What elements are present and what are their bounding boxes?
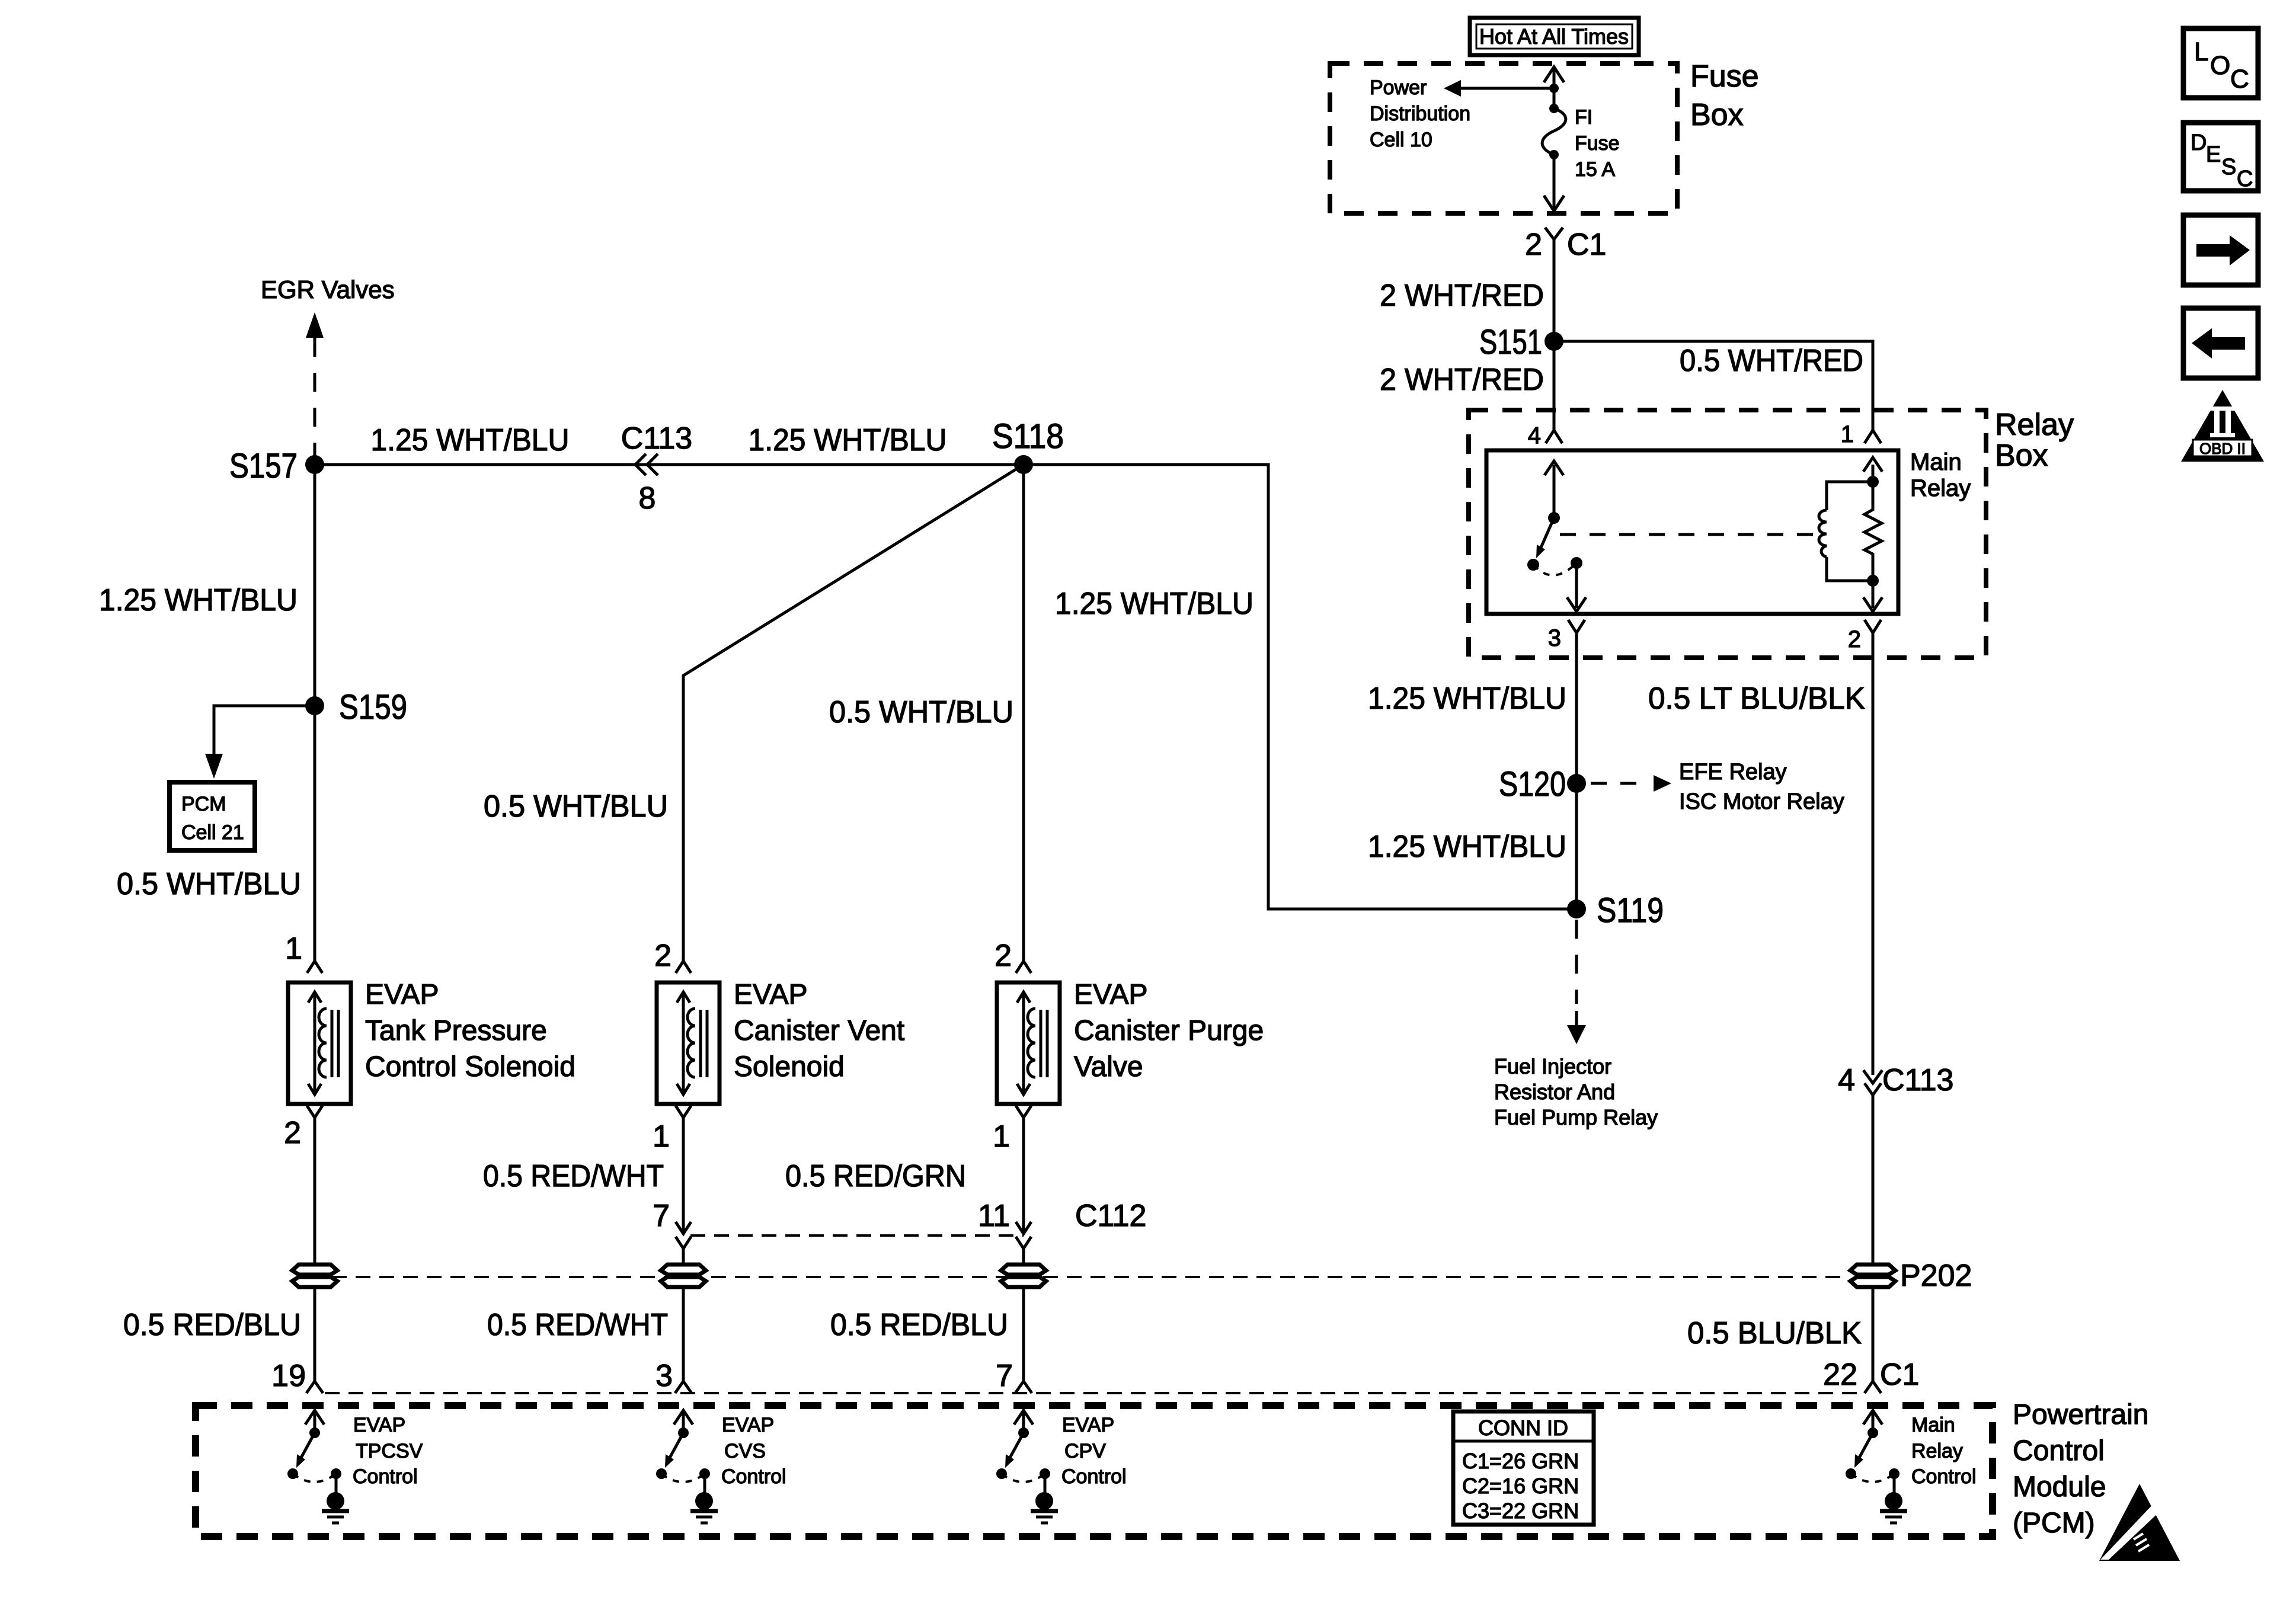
svg-text:1: 1 xyxy=(1841,421,1854,447)
svg-text:2: 2 xyxy=(284,1116,301,1150)
diagonal wire S118 to canister vent solenoid xyxy=(683,465,1024,961)
svg-text:C: C xyxy=(2237,167,2253,191)
label FI Fuse 15 A xyxy=(1575,106,1620,181)
relay resistor xyxy=(1865,482,1882,587)
connector C1 pin 2 (fuse box output) xyxy=(1545,228,1563,341)
svg-text:1.25 WHT/BLU: 1.25 WHT/BLU xyxy=(371,423,570,457)
wire fuse-box feed arrow up xyxy=(1544,67,1564,88)
svg-text:S: S xyxy=(2221,155,2236,180)
PCM driver switch EVAP CPV Control xyxy=(996,1410,1050,1496)
wire S151 down to relay pin 4 xyxy=(1553,341,1556,430)
ground (CVS driver) xyxy=(690,1492,718,1523)
wire grommet to PCM pin 3 xyxy=(682,1287,685,1381)
connector PCM pin 19 xyxy=(271,1359,323,1393)
wire fuse output arrow down xyxy=(1544,155,1564,211)
svg-text:Hot At All Times: Hot At All Times xyxy=(1479,24,1629,49)
grommet (purge valve wire) xyxy=(1001,1265,1046,1287)
svg-text:S159: S159 xyxy=(339,688,407,726)
svg-text:3: 3 xyxy=(1548,625,1561,651)
solenoid EVAP Canister Purge Valve xyxy=(997,982,1060,1104)
label EVAP Canister Vent Solenoid xyxy=(734,979,904,1083)
svg-text:C3=22 GRN: C3=22 GRN xyxy=(1462,1499,1579,1523)
dashed wire to EGR valves (arrow up) xyxy=(306,312,324,465)
svg-text:E: E xyxy=(2206,142,2221,167)
connector pin 1 below canister vent solenoid xyxy=(653,1106,691,1233)
solenoid EVAP Canister Vent Solenoid xyxy=(657,982,720,1104)
svg-text:C1: C1 xyxy=(1567,228,1606,262)
label EVAP Canister Purge Valve xyxy=(1074,979,1264,1083)
ESD warning triangle xyxy=(2099,1484,2180,1561)
svg-text:1.25 WHT/BLU: 1.25 WHT/BLU xyxy=(1368,830,1566,864)
svg-text:Control: Control xyxy=(1911,1465,1977,1488)
label Fuse Box xyxy=(1690,59,1759,132)
svg-text:Fuel Injector: Fuel Injector xyxy=(1494,1054,1611,1078)
svg-text:0.5 WHT/RED: 0.5 WHT/RED xyxy=(1680,344,1863,378)
dashed arrow S120 to EFE relay xyxy=(1591,775,1671,792)
svg-text:(PCM): (PCM) xyxy=(2013,1507,2095,1539)
wire left column S157 down xyxy=(314,465,316,961)
grommet (canister vent wire) xyxy=(661,1265,706,1287)
label EVAP CVS Control xyxy=(721,1414,786,1488)
svg-text:0.5 RED/BLU: 0.5 RED/BLU xyxy=(830,1308,1008,1342)
connector pin 2 below tank pressure solenoid xyxy=(284,1106,322,1266)
connector PCM pin 7 xyxy=(996,1359,1032,1393)
svg-text:1: 1 xyxy=(993,1119,1010,1154)
svg-text:Control: Control xyxy=(2013,1435,2105,1467)
svg-text:4: 4 xyxy=(1528,422,1541,449)
relay switch output to pin 3 xyxy=(1567,563,1586,612)
connector relay pin 1 xyxy=(1841,421,1881,447)
splice S159 xyxy=(305,688,407,726)
connector C112 pin 7 xyxy=(653,1199,691,1266)
splice S118 xyxy=(992,417,1064,474)
ground (TPCSV driver) xyxy=(322,1492,349,1523)
svg-text:Power: Power xyxy=(1370,76,1427,99)
svg-text:0.5 RED/BLU: 0.5 RED/BLU xyxy=(123,1308,301,1342)
svg-text:C112: C112 xyxy=(1075,1199,1146,1233)
svg-text:2: 2 xyxy=(654,939,671,973)
svg-text:PCM: PCM xyxy=(181,793,226,815)
svg-text:Canister Purge: Canister Purge xyxy=(1074,1015,1264,1046)
connector C113 pin 4 (right wire) xyxy=(1838,1063,1953,1265)
svg-text:7: 7 xyxy=(653,1199,670,1233)
svg-text:0.5 LT BLU/BLK: 0.5 LT BLU/BLK xyxy=(1648,681,1865,716)
svg-text:EFE Relay: EFE Relay xyxy=(1679,760,1787,785)
svg-text:Control: Control xyxy=(721,1465,786,1488)
svg-text:S119: S119 xyxy=(1597,891,1664,930)
svg-text:2 WHT/RED: 2 WHT/RED xyxy=(1380,363,1544,397)
svg-text:Cell 10: Cell 10 xyxy=(1370,129,1432,151)
svg-text:OBD II: OBD II xyxy=(2199,440,2246,457)
dashed firewall line through grommets xyxy=(332,1276,1849,1278)
svg-text:EVAP: EVAP xyxy=(353,1414,405,1436)
svg-text:2: 2 xyxy=(1525,228,1542,262)
icon box DESC xyxy=(2183,123,2258,191)
connector relay pin 3 xyxy=(1548,620,1585,909)
svg-text:EVAP: EVAP xyxy=(365,979,439,1010)
relay switch contact arm (pin 4 side) xyxy=(1527,461,1582,575)
svg-text:0.5 WHT/BLU: 0.5 WHT/BLU xyxy=(829,695,1013,729)
label Powertrain Control Module (PCM) xyxy=(2013,1399,2148,1539)
svg-text:Relay: Relay xyxy=(1995,408,2074,442)
svg-text:C1: C1 xyxy=(1880,1358,1919,1392)
svg-text:0.5 RED/WHT: 0.5 RED/WHT xyxy=(487,1308,668,1342)
label Relay Box xyxy=(1995,408,2074,473)
icon OBD II triangle xyxy=(2181,390,2264,462)
svg-text:Resistor And: Resistor And xyxy=(1494,1080,1615,1104)
label Fuel Injector Resistor And Fuel Pump Relay xyxy=(1494,1054,1658,1129)
svg-text:Fuel Pump Relay: Fuel Pump Relay xyxy=(1494,1105,1658,1129)
grommet (tank pressure wire) xyxy=(292,1265,337,1287)
svg-text:CONN ID: CONN ID xyxy=(1478,1416,1568,1440)
label EFE Relay / ISC Motor Relay xyxy=(1679,760,1844,814)
svg-text:2: 2 xyxy=(1848,626,1861,652)
label Main Relay Control xyxy=(1911,1414,1977,1488)
svg-text:3: 3 xyxy=(655,1359,673,1393)
svg-text:Control: Control xyxy=(353,1465,418,1488)
connector relay pin 4 xyxy=(1528,422,1562,449)
svg-text:11: 11 xyxy=(978,1199,1010,1233)
svg-text:P202: P202 xyxy=(1900,1259,1972,1293)
PCM driver switch EVAP CVS Control xyxy=(656,1410,710,1496)
connector pin 2 (canister purge valve) xyxy=(994,939,1031,973)
svg-text:O: O xyxy=(2210,51,2230,80)
svg-text:FI: FI xyxy=(1575,106,1593,129)
svg-text:0.5 WHT/BLU: 0.5 WHT/BLU xyxy=(484,789,668,824)
wire grommet to PCM pin 19 xyxy=(314,1287,316,1381)
svg-text:Relay: Relay xyxy=(1910,475,1971,501)
dashed PCM connector face line xyxy=(325,1392,1859,1394)
fuse FI 15A symbol xyxy=(1542,88,1566,159)
svg-text:EVAP: EVAP xyxy=(722,1414,774,1436)
svg-text:1: 1 xyxy=(653,1119,670,1154)
connector relay pin 2 xyxy=(1848,620,1881,1075)
svg-text:CVS: CVS xyxy=(724,1440,766,1462)
svg-text:EVAP: EVAP xyxy=(1074,979,1148,1010)
relay coil output to pin 2 xyxy=(1863,581,1882,612)
main relay body box xyxy=(1486,450,1898,614)
svg-text:1: 1 xyxy=(285,932,302,966)
connector pin 2 (canister vent solenoid) xyxy=(654,939,691,973)
svg-text:7: 7 xyxy=(996,1359,1013,1393)
svg-text:0.5 RED/GRN: 0.5 RED/GRN xyxy=(785,1159,966,1193)
svg-text:Control: Control xyxy=(1061,1465,1127,1488)
connector C112 pin 11 xyxy=(978,1199,1146,1266)
connector C113 pin 8 (top rail) xyxy=(621,421,692,516)
wire P202 to PCM pin 22 xyxy=(1872,1287,1875,1381)
svg-text:C1=26 GRN: C1=26 GRN xyxy=(1462,1449,1579,1473)
connector pin 1 (tank pressure solenoid) xyxy=(285,932,322,973)
splice S151 xyxy=(1479,323,1563,361)
svg-text:1.25 WHT/BLU: 1.25 WHT/BLU xyxy=(1368,681,1566,716)
svg-text:1.25 WHT/BLU: 1.25 WHT/BLU xyxy=(749,423,947,457)
icon box LOC xyxy=(2183,28,2258,98)
wire S118 to S119 (right, down, right) xyxy=(1024,465,1576,909)
svg-text:S118: S118 xyxy=(992,417,1064,456)
svg-text:D: D xyxy=(2191,130,2207,155)
svg-text:C113: C113 xyxy=(621,421,692,456)
svg-text:S157: S157 xyxy=(229,447,298,485)
relay coil xyxy=(1819,457,1882,581)
splice S120 xyxy=(1499,765,1586,804)
connector C1 pin 22 (PCM) xyxy=(1823,1358,1919,1393)
svg-text:1.25 WHT/BLU: 1.25 WHT/BLU xyxy=(1055,587,1253,621)
svg-text:Canister Vent: Canister Vent xyxy=(734,1015,904,1046)
wire to power distribution (left arrow) xyxy=(1444,80,1559,97)
icon box left-arrow xyxy=(2183,308,2258,378)
ground (CPV driver) xyxy=(1031,1492,1058,1523)
svg-text:EVAP: EVAP xyxy=(1062,1414,1114,1436)
svg-text:CPV: CPV xyxy=(1064,1440,1106,1462)
splice S119 xyxy=(1567,891,1664,930)
svg-text:0.5 RED/WHT: 0.5 RED/WHT xyxy=(483,1159,664,1193)
fuse box (dashed) xyxy=(1330,63,1677,213)
relay box (dashed) xyxy=(1469,410,1986,658)
svg-text:2 WHT/RED: 2 WHT/RED xyxy=(1380,279,1544,313)
svg-text:ISC Motor Relay: ISC Motor Relay xyxy=(1679,789,1844,814)
label EVAP Tank Pressure Control Solenoid xyxy=(365,979,575,1083)
grommet P202 xyxy=(1850,1259,1972,1293)
wire grommet to PCM pin 7 xyxy=(1022,1287,1025,1381)
label EVAP TPCSV Control xyxy=(353,1414,423,1488)
PCM box (dashed) xyxy=(196,1406,1993,1537)
svg-text:S120: S120 xyxy=(1499,765,1566,804)
dashed line C112 xyxy=(690,1234,1024,1237)
svg-text:TPCSV: TPCSV xyxy=(356,1440,423,1462)
wire top rail S157 to S118 xyxy=(315,463,1024,466)
wire S151 to relay pin 1 xyxy=(1554,341,1873,430)
svg-text:Relay: Relay xyxy=(1911,1440,1963,1462)
svg-text:Main: Main xyxy=(1911,1414,1955,1436)
label Power Distribution Cell 10 xyxy=(1370,76,1470,151)
svg-text:Solenoid: Solenoid xyxy=(734,1051,845,1083)
svg-text:Box: Box xyxy=(1995,438,2048,473)
connector pin 1 below canister purge valve xyxy=(993,1106,1031,1233)
wire S159 branch to PCM cell 21 xyxy=(205,706,315,779)
relay internal dashed link xyxy=(1560,533,1821,536)
PCM driver switch Main Relay Control xyxy=(1846,1410,1900,1496)
svg-text:4: 4 xyxy=(1838,1063,1855,1097)
svg-text:S151: S151 xyxy=(1479,323,1542,361)
label Main Relay xyxy=(1910,449,1971,501)
svg-text:EGR Valves: EGR Valves xyxy=(261,276,395,303)
svg-text:EVAP: EVAP xyxy=(734,979,808,1010)
svg-text:C113: C113 xyxy=(1882,1063,1953,1097)
svg-text:0.5 BLU/BLK: 0.5 BLU/BLK xyxy=(1687,1316,1862,1350)
svg-text:L: L xyxy=(2194,37,2208,66)
svg-text:Fuse: Fuse xyxy=(1690,59,1759,94)
solenoid EVAP Tank Pressure Control Solenoid xyxy=(288,982,351,1104)
label 2 C1 xyxy=(1525,228,1606,262)
PCM driver switch EVAP TPCSV Control xyxy=(287,1410,341,1496)
splice S157 xyxy=(229,447,324,485)
svg-text:C2=16 GRN: C2=16 GRN xyxy=(1462,1474,1579,1498)
connector PCM pin 3 xyxy=(655,1359,692,1393)
svg-text:Valve: Valve xyxy=(1074,1051,1143,1083)
svg-text:8: 8 xyxy=(639,481,656,516)
wire S118 down to purge valve xyxy=(1022,465,1025,961)
box PCM Cell 21 xyxy=(170,782,255,850)
label EVAP CPV Control xyxy=(1061,1414,1127,1488)
svg-text:Powertrain: Powertrain xyxy=(2013,1399,2148,1430)
svg-text:C: C xyxy=(2230,65,2249,94)
svg-text:1.25 WHT/BLU: 1.25 WHT/BLU xyxy=(99,583,298,617)
svg-text:Tank Pressure: Tank Pressure xyxy=(365,1015,547,1046)
power label box "Hot At All Times" xyxy=(1470,18,1639,55)
svg-text:Main: Main xyxy=(1910,449,1962,475)
svg-text:Fuse: Fuse xyxy=(1575,132,1620,155)
dashed wire below S119 to fuel pump relay xyxy=(1567,920,1586,1044)
ground (Main Relay driver) xyxy=(1880,1492,1907,1523)
svg-text:2: 2 xyxy=(994,939,1012,973)
svg-text:0.5 WHT/BLU: 0.5 WHT/BLU xyxy=(117,867,301,901)
svg-text:Module: Module xyxy=(2013,1471,2106,1503)
svg-text:Cell 21: Cell 21 xyxy=(181,821,244,844)
svg-text:Box: Box xyxy=(1690,98,1744,132)
table CONN ID xyxy=(1453,1411,1594,1525)
svg-text:Control Solenoid: Control Solenoid xyxy=(365,1051,575,1083)
svg-text:15 A: 15 A xyxy=(1575,158,1615,181)
svg-text:22: 22 xyxy=(1823,1358,1857,1392)
svg-text:Distribution: Distribution xyxy=(1370,103,1470,125)
svg-text:19: 19 xyxy=(271,1359,306,1393)
icon box right-arrow xyxy=(2183,215,2258,285)
